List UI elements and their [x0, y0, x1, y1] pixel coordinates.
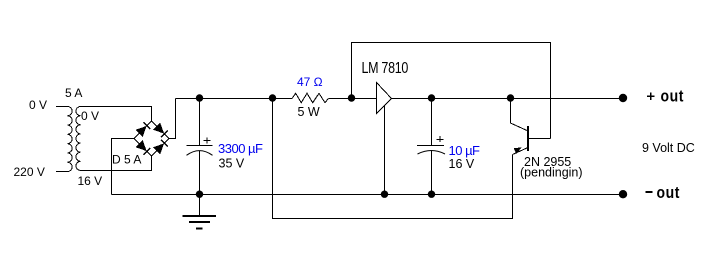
- diode top-left (points to top corner): [136, 122, 151, 137]
- wire regulator ground leg: [384, 106, 386, 195]
- svg-text:LM 7810: LM 7810: [362, 59, 409, 76]
- wire secondary 16V to bridge bottom corner: [81, 156, 152, 171]
- svg-text:35 V: 35 V: [219, 157, 245, 171]
- junction dot regulator input node: [348, 94, 355, 101]
- wire feedback top box: [352, 43, 551, 139]
- capacitor C1 top lead: [199, 99, 201, 146]
- label - out: [646, 184, 680, 202]
- svg-text:47 Ω: 47 Ω: [297, 75, 323, 89]
- capacitor C2 plus sign: [436, 136, 443, 142]
- svg-text:16 V: 16 V: [449, 157, 475, 171]
- svg-text:0 V: 0 V: [81, 109, 99, 123]
- svg-text:10 µF: 10 µF: [449, 143, 481, 158]
- junction dot top rail at C1: [196, 94, 203, 101]
- terminal dot minus out: [619, 190, 627, 198]
- diode top-right (points to right corner): [153, 123, 168, 138]
- capacitor C1 plus sign: [203, 138, 210, 144]
- capacitor C2 bottom lead: [431, 151, 433, 195]
- transformer T1 primary bottom stub: [56, 171, 68, 173]
- svg-text:0 V: 0 V: [29, 98, 47, 112]
- junction dot top rail at emitter return: [269, 94, 276, 101]
- wire top rail segment 2: [328, 98, 376, 100]
- diode bottom-right (points to right corner): [153, 140, 168, 155]
- junction dot top rail at C2: [428, 94, 435, 101]
- transformer T1 primary winding: [68, 107, 73, 172]
- svg-text:5 A: 5 A: [65, 86, 82, 100]
- capacitor C2 top lead: [431, 99, 433, 146]
- wire secondary 0V to bridge top corner: [81, 107, 152, 122]
- capacitor C2 plates: [417, 146, 445, 155]
- transformer T1 primary top stub: [56, 106, 68, 108]
- svg-text:out: out: [661, 87, 685, 105]
- wire bridge plus output riser to top rail: [169, 99, 176, 139]
- svg-text:(pendingin): (pendingin): [520, 166, 583, 180]
- capacitor C1 plates: [187, 146, 213, 156]
- wire emitter return to input rail: [273, 99, 513, 219]
- transistor Q1 emitter lead with arrow: [513, 147, 529, 154]
- capacitor C1 bottom lead: [199, 151, 201, 195]
- svg-text:9 Volt DC: 9 Volt DC: [642, 141, 695, 155]
- wire top rail segment 1: [176, 98, 293, 100]
- junction dot bottom rail at regulator ground: [381, 191, 388, 198]
- diode bottom-left (points to bottom corner): [136, 140, 151, 155]
- bridge rectifier D1 diamond: [134, 121, 169, 156]
- transformer T1 secondary winding: [76, 107, 81, 171]
- wire bridge minus output to bottom rail: [112, 139, 135, 195]
- junction dot bottom rail at ground: [196, 191, 203, 198]
- transistor Q1 base lead: [511, 99, 529, 132]
- svg-text:D 5 A: D 5 A: [112, 153, 141, 167]
- resistor R1 47 ohm: [292, 93, 328, 102]
- transistor Q1 collector lead: [528, 138, 551, 140]
- wire bottom rail: [112, 194, 623, 196]
- ground symbol: [183, 195, 217, 229]
- svg-text:220 V: 220 V: [14, 165, 45, 179]
- svg-text:16 V: 16 V: [78, 174, 103, 188]
- regulator U1 LM7810 triangle symbol: [377, 83, 392, 114]
- junction dot bottom rail at C2: [428, 191, 435, 198]
- terminal dot plus out: [619, 94, 627, 102]
- label + out: [647, 87, 684, 105]
- junction dot top rail at base: [507, 94, 514, 101]
- svg-text:3300 µF: 3300 µF: [218, 141, 263, 156]
- svg-text:out: out: [657, 184, 681, 202]
- wire top rail segment 3: [392, 98, 623, 100]
- transistor Q1 base bar: [527, 126, 529, 151]
- svg-text:5 W: 5 W: [298, 105, 320, 119]
